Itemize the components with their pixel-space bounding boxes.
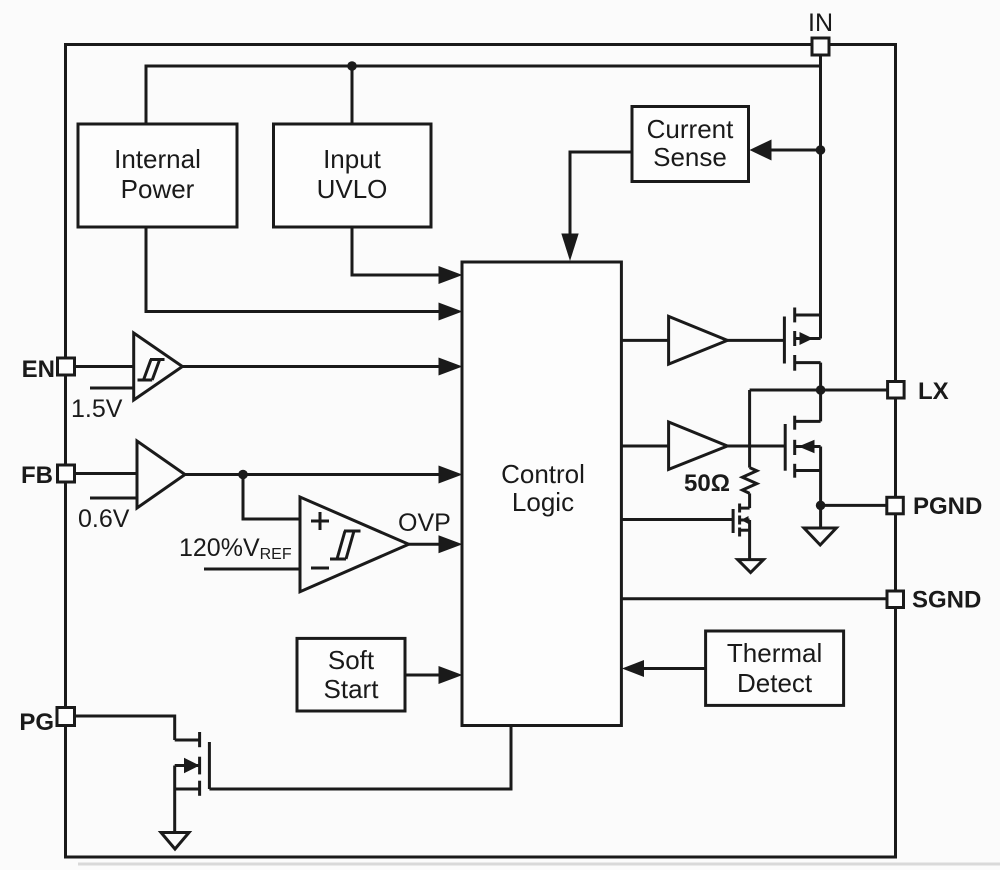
wire: SGND rail <box>621 597 887 600</box>
wire: Control Logic to Q3 gate <box>621 518 733 521</box>
wire: Q2 source/body down to PGND <box>819 447 822 529</box>
node: junction dot PGND <box>816 501 826 511</box>
op-amp: EN comparator with hysteresis <box>134 333 183 400</box>
pin SGND <box>887 587 981 614</box>
transistor Q3 small NMOS <box>733 504 750 537</box>
svg-text:Detect: Detect <box>737 668 813 698</box>
block: Soft Start <box>297 638 405 711</box>
block: Control Logic <box>462 262 621 726</box>
svg-text:FB: FB <box>21 462 53 489</box>
wire: EN pin to comparator <box>75 365 134 368</box>
wire: driver 2 output to Q2 gate <box>727 445 785 448</box>
op-amp: FB error amplifier <box>137 441 185 508</box>
wire: Input UVLO top connection <box>351 66 354 124</box>
svg-text:50Ω: 50Ω <box>684 470 730 497</box>
wire: driver 1 output to Q1 gate <box>727 339 784 342</box>
wire: FB amplifier reference stub <box>90 497 137 500</box>
buffer: gate driver 2 <box>669 422 728 469</box>
wire: top rail from Internal Power to IN line <box>146 66 821 124</box>
wire: Q1 source to LX rail <box>819 363 822 390</box>
ground: PG <box>161 833 189 850</box>
wire: LX down to 50 ohm resistor <box>748 390 751 468</box>
wire: IN pin vertical down to Q1 <box>819 54 822 339</box>
wire: PG pin to Q4 drain <box>75 716 175 740</box>
svg-text:PGND: PGND <box>913 493 982 520</box>
svg-text:PG: PG <box>19 709 54 736</box>
wire: EN comparator output to Control Logic (arrow right) <box>182 365 440 368</box>
wire: OVP comparator non-inverting feed <box>243 475 300 520</box>
svg-text:EN: EN <box>22 356 55 383</box>
block: Thermal Detect <box>706 631 844 705</box>
pin LX <box>888 378 949 405</box>
block: Current Sense <box>632 107 749 182</box>
wire: resistor to Q3 drain <box>748 493 751 508</box>
wire: Q4 body/source down to ground <box>173 766 176 833</box>
resistor 50R <box>742 468 756 494</box>
svg-text:Start: Start <box>324 674 380 704</box>
pin FB <box>21 462 75 489</box>
node: junction dot IN / current sense tap <box>816 145 826 155</box>
wire: Control Logic to gate driver 2 <box>621 445 668 448</box>
svg-text:Logic: Logic <box>512 487 574 517</box>
wire: Current Sense output to Control Logic top (arrow down) <box>570 152 632 236</box>
scan artifact band <box>78 863 1000 866</box>
ground: PGND <box>804 528 836 545</box>
op-amp: OVP comparator with hysteresis <box>300 497 409 592</box>
wire: FB amplifier output to Control Logic (arrow right) <box>185 473 440 476</box>
svg-text:Power: Power <box>121 174 195 204</box>
wire: Internal Power to Control Logic (arrow right) <box>146 227 440 312</box>
svg-text:Current: Current <box>647 114 734 144</box>
wire: LX rail <box>750 389 888 392</box>
transistor Q2 low-side NMOS <box>785 416 820 478</box>
svg-text:Sense: Sense <box>653 142 727 172</box>
wire: FB pin to amplifier <box>75 472 138 475</box>
wire: Input UVLO to Control Logic (arrow right) <box>352 227 440 275</box>
svg-text:Input: Input <box>323 144 382 174</box>
wire: PGND rail <box>821 504 887 507</box>
wire: EN comparator reference stub <box>90 387 134 390</box>
svg-text:OVP: OVP <box>398 509 451 537</box>
buffer: gate driver 1 <box>669 316 728 364</box>
node: junction dot FB output / OVP tap <box>238 470 248 480</box>
svg-text:1.5V: 1.5V <box>71 395 123 423</box>
block: Internal Power <box>78 124 237 227</box>
block: Input UVLO <box>274 124 432 227</box>
wire: Control Logic to gate driver 1 <box>621 339 668 342</box>
pin EN <box>22 356 75 383</box>
svg-text:IN: IN <box>808 9 833 37</box>
wire: Q4 gate to Control Logic bottom <box>209 726 511 790</box>
svg-text:UVLO: UVLO <box>317 174 388 204</box>
svg-text:Control: Control <box>501 459 585 489</box>
wire: OVP comparator inverting stub <box>204 568 300 571</box>
wire: tap into Current Sense (arrow left) <box>768 149 821 152</box>
transistor Q4 PG open-drain NMOS (mirrored) <box>175 732 210 796</box>
wire: Q3 source to ground <box>748 520 751 560</box>
wire: Soft Start to Control Logic (arrow right) <box>405 674 440 677</box>
IC boundary box <box>66 45 896 858</box>
node: junction dot top rail / UVLO <box>347 61 357 71</box>
wire: OVP output to Control Logic (arrow right) <box>409 543 440 546</box>
node: junction dot LX <box>816 385 826 395</box>
transistor Q1 high-side PMOS <box>784 308 820 371</box>
svg-text:0.6V: 0.6V <box>78 505 130 533</box>
svg-text:SGND: SGND <box>912 587 981 614</box>
pin IN <box>808 9 833 55</box>
pin PG <box>19 708 74 737</box>
wire: LX to Q2 drain <box>819 390 822 421</box>
ground: Q3 <box>738 560 764 573</box>
svg-text:LX: LX <box>918 378 949 405</box>
svg-text:Thermal: Thermal <box>727 638 822 668</box>
svg-text:Soft: Soft <box>328 645 375 675</box>
pin PGND <box>887 493 983 520</box>
svg-text:Internal: Internal <box>114 144 201 174</box>
wire: Thermal Detect to Control Logic (arrow left) <box>643 667 706 670</box>
